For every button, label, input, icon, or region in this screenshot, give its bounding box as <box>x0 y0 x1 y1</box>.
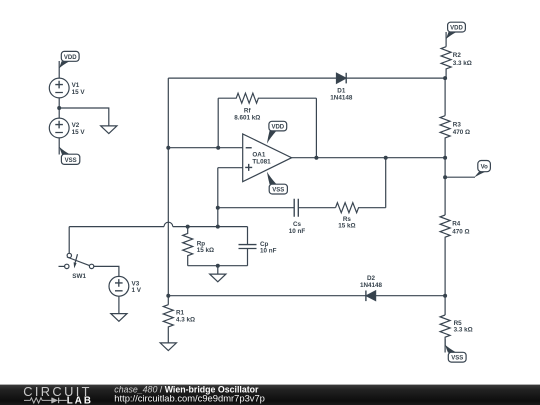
label R4 470 Ohm <box>452 220 469 235</box>
svg-text:15 V: 15 V <box>72 129 86 136</box>
ground (supply midpoint) <box>101 126 117 134</box>
resistor Rs <box>336 203 386 213</box>
node junction Rf left <box>216 146 220 150</box>
node junction V1/V2 <box>57 106 61 110</box>
label V1 15 V <box>72 82 86 96</box>
ground (R1) <box>160 343 176 351</box>
voltage source V1 <box>49 78 69 98</box>
wire Rs up to output <box>385 158 387 208</box>
op-amp OA1 TL081 <box>243 134 292 182</box>
node junction Rs branch / output <box>384 156 388 160</box>
wire V1 to V2 <box>58 98 60 118</box>
wire left vertical (inverting net) <box>167 78 169 305</box>
svg-text:3.3 kΩ: 3.3 kΩ <box>454 327 473 334</box>
diode D1 <box>337 73 347 84</box>
svg-text:LAB: LAB <box>67 396 93 405</box>
svg-text:10 nF: 10 nF <box>260 248 277 255</box>
label D2 1N4148 <box>360 275 383 289</box>
wire Rf right vertical <box>315 98 317 158</box>
resistor Rf <box>218 93 316 103</box>
ground (Rp/Cp) <box>210 266 226 282</box>
net flag VSS (right rail) <box>445 339 466 362</box>
wire inverting input <box>168 147 242 149</box>
svg-text:15 kΩ: 15 kΩ <box>338 223 355 230</box>
logo schematic glyph <box>24 398 67 404</box>
node junction ground stub <box>216 264 220 268</box>
net flag VDD (right rail) <box>446 22 465 47</box>
label D1 1N4148 <box>330 87 353 101</box>
label V2 15 V <box>72 122 86 136</box>
switch SW1 <box>59 227 94 269</box>
label Rs 15 kOhm <box>338 216 355 230</box>
label V3 1 V <box>132 280 142 294</box>
wire Vo tap <box>445 176 475 178</box>
svg-text:SW1: SW1 <box>72 273 86 280</box>
node junction Rf right / output <box>314 156 318 160</box>
svg-text:470 Ω: 470 Ω <box>453 129 470 136</box>
svg-text:D1: D1 <box>337 87 346 94</box>
wire switch to V3 <box>94 266 119 276</box>
svg-text:10 nF: 10 nF <box>289 228 306 235</box>
resistor R4 <box>440 215 450 296</box>
resistor R3 <box>440 116 450 158</box>
wire V3 to ground <box>118 296 120 313</box>
svg-text:R4: R4 <box>452 220 461 227</box>
svg-text:VSS: VSS <box>272 188 284 194</box>
svg-text:D2: D2 <box>367 275 376 282</box>
node junction output / right rail <box>443 156 447 160</box>
svg-text:1 V: 1 V <box>132 287 142 294</box>
node junction top net / right rail <box>443 76 447 80</box>
wire Cs left <box>218 207 294 209</box>
resistor R2 <box>441 47 451 78</box>
svg-text:R1: R1 <box>176 309 185 316</box>
wire noninverting vertical <box>217 168 219 227</box>
svg-text:VSS: VSS <box>65 158 77 164</box>
diode D2 <box>366 291 376 302</box>
svg-text:15 V: 15 V <box>72 89 86 96</box>
wire top net (D1 row) <box>168 77 445 79</box>
svg-text:1N4148: 1N4148 <box>330 95 353 102</box>
svg-text:http://circuitlab.com/c9e9dmr7: http://circuitlab.com/c9e9dmr7p3v7p <box>114 392 265 403</box>
net flag VSS (op-amp supply) <box>267 172 288 194</box>
wire hop over vertical <box>164 222 173 226</box>
svg-text:R2: R2 <box>453 52 462 59</box>
svg-text:Vo: Vo <box>481 165 489 171</box>
label R1 4.3 kOhm <box>176 309 195 323</box>
wire D2 row <box>168 295 445 297</box>
svg-text:VDD: VDD <box>64 55 77 61</box>
wire right rail R3-R4 <box>444 158 446 215</box>
node junction noninv vert / rail <box>216 225 220 229</box>
svg-text:8.601 kΩ: 8.601 kΩ <box>234 114 260 121</box>
node junction R1 / D2 net <box>166 294 170 298</box>
svg-text:TL081: TL081 <box>252 158 271 165</box>
node junction Vo tap <box>443 175 447 179</box>
svg-text:R3: R3 <box>453 122 462 129</box>
svg-text:1N4148: 1N4148 <box>360 282 383 289</box>
wire right rail R4-R5 <box>444 296 446 315</box>
capacitor Cp <box>239 227 257 266</box>
svg-text:470 Ω: 470 Ω <box>452 229 469 236</box>
svg-text:3.3 kΩ: 3.3 kΩ <box>453 60 472 67</box>
svg-text:V1: V1 <box>72 82 80 89</box>
wire right rail R2-R3 <box>444 78 446 116</box>
svg-text:4.3 kΩ: 4.3 kΩ <box>176 317 195 324</box>
node junction Rp top <box>186 225 190 229</box>
svg-text:VDD: VDD <box>450 26 463 32</box>
wire switch rail <box>69 226 247 228</box>
voltage source V2 <box>49 118 69 138</box>
wire Rf left vertical <box>217 98 219 148</box>
label Cs 10 nF <box>289 221 306 235</box>
voltage source V3 <box>109 276 129 296</box>
wire to ground <box>59 108 109 126</box>
net flag VSS (left supply) <box>59 138 80 165</box>
node junction left vert / inv input <box>166 146 170 150</box>
net flag VDD (op-amp supply) <box>267 121 287 143</box>
label Rp 15 kOhm <box>197 240 214 254</box>
label R5 3.3 kOhm <box>454 320 473 334</box>
label R3 470 Ohm <box>453 122 470 137</box>
capacitor Cs <box>294 199 298 217</box>
svg-text:15 kΩ: 15 kΩ <box>197 247 214 254</box>
wire noninverting input <box>218 167 243 169</box>
net flag VDD (left supply) <box>59 51 79 78</box>
footer bar <box>0 385 540 405</box>
resistor R1 <box>163 305 173 343</box>
label R2 3.3 kOhm <box>453 52 472 67</box>
svg-text:OA1: OA1 <box>252 151 265 158</box>
node junction Cs wire <box>216 206 220 210</box>
svg-text:VDD: VDD <box>271 125 284 131</box>
wire op-amp output <box>292 157 446 159</box>
label Cp 10 nF <box>260 241 277 255</box>
resistor Rp <box>183 227 193 266</box>
node junction D2 net / right rail <box>443 294 447 298</box>
svg-text:V2: V2 <box>72 122 80 129</box>
label Rf 8.601 kOhm <box>234 108 260 122</box>
wire Rp/Cp bottom rail <box>188 265 248 267</box>
wire Cs to Rs <box>298 207 335 209</box>
net flag Vo <box>474 161 490 178</box>
ground (V3) <box>111 314 127 322</box>
resistor R5 <box>440 315 450 346</box>
svg-text:VSS: VSS <box>451 356 463 362</box>
